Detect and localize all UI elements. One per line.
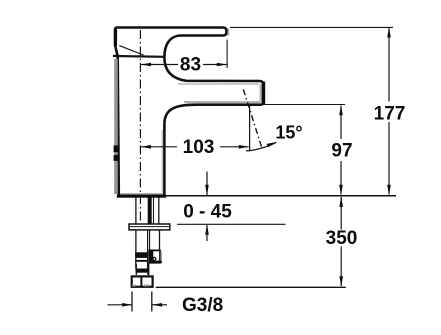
G3/8 left arrow (points right) (122, 303, 132, 307)
hose collar side edges (135, 251, 137, 269)
pop-up knob on body left edge (114, 145, 120, 152)
dim 350 top arrow (339, 196, 343, 207)
body bottom thick bar (117, 195, 166, 198)
G3/8 dim line right tail (152, 304, 167, 306)
lever base underside diagonal (119, 46, 143, 55)
base plane extension line (166, 195, 397, 197)
shadow above body bottom (120, 193, 163, 195)
tube inner line a (147, 230, 149, 252)
mounting flange (129, 224, 170, 230)
dim 83 left arrow (141, 63, 151, 67)
dim 350 line upper segment (340, 197, 342, 230)
dim 177 bottom arrow (387, 185, 391, 196)
svg-text:103: 103 (183, 137, 215, 158)
svg-text:350: 350 (326, 228, 358, 249)
shadow above spout bottom edge (inside) (184, 101, 261, 103)
15 deg arc (246, 143, 276, 151)
outlet vertical reference line (249, 106, 251, 152)
faucet outer silhouette (lever, slot, spout, body) (115, 28, 263, 196)
tube inner line b (149, 230, 151, 251)
shadow inside body right edge (161, 130, 163, 193)
svg-text:97: 97 (331, 140, 352, 161)
shadow left of body (114, 59, 118, 194)
dim 350 line lower segment (340, 247, 342, 287)
dim 177 line lower segment (388, 122, 390, 195)
shank right edge (158, 198, 160, 225)
nut bottom corner shadow left (132, 285, 136, 287)
dim 83: extension line from lever tip (226, 40, 228, 69)
tube below flange: left edge (135, 230, 137, 252)
97 top extension line (spout underside) (265, 104, 346, 106)
dim 103 line left segment (141, 146, 177, 148)
svg-text:0 - 45: 0 - 45 (183, 202, 232, 223)
dim 177 top arrow (387, 27, 391, 38)
dim 103 right arrow (239, 145, 249, 149)
spout right edge thick overlay (262, 82, 266, 105)
bottom reference line (156, 286, 346, 288)
flange inner line (129, 226, 170, 228)
side fitting right gray fringe (160, 252, 162, 263)
side fitting small circle (153, 257, 156, 260)
dim 97 line upper segment (340, 106, 342, 140)
hose collar thin ring (135, 260, 148, 262)
G3/8 extension tick right (151, 292, 153, 312)
0-45 lower arrow line (206, 225, 208, 241)
top extension line to 177 (230, 26, 393, 28)
dim 103 line right segment (220, 146, 249, 148)
tube right edge (159, 230, 161, 251)
fitting left edge continuation to nut (148, 263, 150, 276)
dim 83 line right segment (203, 64, 227, 66)
nut face divider (140, 276, 142, 287)
dim 83 right arrow (217, 63, 227, 67)
centerline (dash-dot) (139, 30, 141, 221)
nut bottom corner shadow right (144, 285, 150, 287)
side fitting box (149, 250, 160, 262)
shank left edge (135, 198, 137, 225)
body top internal line (113, 55, 165, 58)
shank threaded stud (black bar) (148, 198, 152, 225)
svg-text:177: 177 (374, 103, 406, 124)
side fitting bottom bar (149, 261, 161, 263)
hose collar black band (135, 252, 148, 258)
0-45 lower arrowhead (up) (205, 224, 209, 235)
dim 97 top arrow (339, 105, 343, 116)
tube above nut: left edge (135, 264, 137, 275)
arc arrowhead (267, 142, 278, 148)
svg-text:G3/8: G3/8 (182, 295, 223, 316)
dim 97 bottom arrow (339, 185, 343, 196)
svg-text:83: 83 (180, 55, 201, 76)
G3/8 extension tick left (131, 292, 133, 312)
dim 103 left arrow (141, 145, 151, 149)
0-45 upper arrow line (206, 172, 208, 196)
black band above nut (136, 269, 149, 273)
dim 177 line upper segment (388, 28, 390, 102)
shadow right of lever tip (227, 29, 229, 36)
G3/8 right arrow (points left) (152, 303, 162, 307)
dim 83 line left segment (141, 64, 178, 66)
hex nut (132, 276, 153, 286)
0-45 upper arrowhead (down) (205, 185, 209, 196)
shank inner line (153, 198, 155, 225)
flange-top extension line (177, 223, 286, 225)
G3/8 dim line left tail (108, 304, 132, 306)
outlet axis dash-dot line (15 deg) (243, 90, 261, 148)
svg-text:15°: 15° (275, 123, 302, 143)
tube above nut: right edge (147, 264, 149, 276)
side fitting black left bar (149, 250, 153, 264)
shadow inside spout right edge (259, 85, 261, 102)
dim 350 bottom arrow (339, 276, 343, 287)
shadow below spout top edge (inside) (178, 83, 260, 85)
lever back edge thick overlay (114, 29, 117, 46)
dim 97 line lower segment (340, 161, 342, 195)
